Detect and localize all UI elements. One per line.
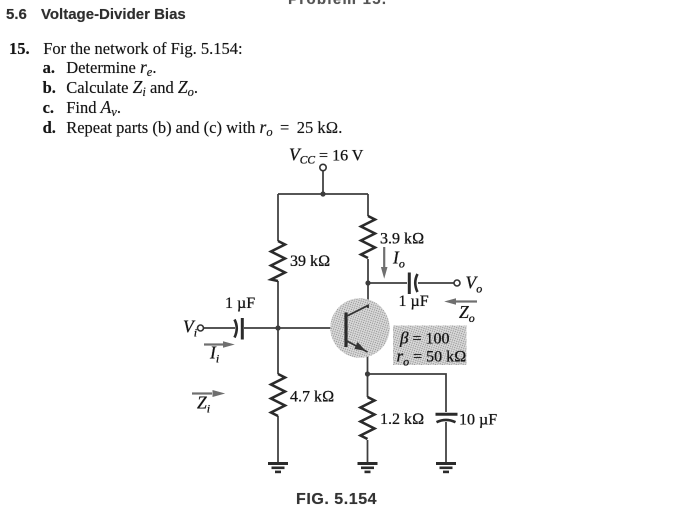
terminal Vcc bbox=[320, 164, 326, 170]
node collector junction bbox=[365, 280, 370, 285]
transistor Q1 emitter arrowhead bbox=[354, 342, 365, 351]
section heading number 5.6 bbox=[6, 7, 27, 22]
box beta/ro parameters bbox=[393, 326, 467, 366]
resistor R1 39 kOhm bbox=[271, 241, 285, 281]
capacitor C1 input 1uF plates bbox=[235, 318, 243, 340]
svg-text:1 µF: 1 µF bbox=[399, 293, 429, 310]
resistor R2 4.7 kOhm bbox=[271, 374, 285, 416]
wire collector vertical bbox=[367, 259, 369, 308]
terminal Vi bbox=[198, 325, 204, 331]
node base junction bbox=[275, 325, 280, 330]
item c bbox=[43, 98, 54, 118]
wire Vcc vertical bbox=[322, 171, 324, 194]
wire left branch middle bbox=[277, 281, 279, 374]
item a bbox=[43, 58, 55, 78]
ground left bbox=[268, 462, 288, 473]
resistor RC 3.9 kOhm bbox=[361, 216, 375, 258]
cropped page-top text fragment bbox=[288, 0, 387, 7]
item d bbox=[43, 118, 56, 138]
item b bbox=[43, 78, 56, 98]
wire 1.2k to ground bbox=[367, 440, 369, 463]
wire Vi terminal to input cap bbox=[203, 327, 235, 329]
wire output cap to Vo terminal bbox=[418, 282, 454, 284]
wire 10uF to ground bbox=[445, 422, 447, 463]
wire left branch upper bbox=[277, 194, 279, 241]
svg-text:1 µF: 1 µF bbox=[225, 295, 255, 312]
svg-text:Vi: Vi bbox=[183, 317, 197, 340]
svg-text:Vo: Vo bbox=[466, 273, 483, 296]
arrow Ii bbox=[204, 341, 235, 348]
resistor RE 1.2 kOhm bbox=[361, 397, 375, 439]
problem 15 intro line bbox=[9, 39, 30, 59]
arrow Zi bbox=[192, 390, 225, 397]
terminal Vo bbox=[454, 280, 460, 286]
svg-text:10 µF: 10 µF bbox=[459, 412, 497, 429]
wire base horizontal bbox=[244, 327, 344, 329]
capacitor C2 output 1uF plates bbox=[409, 273, 417, 295]
svg-text:Io: Io bbox=[392, 248, 405, 271]
svg-text:VCC = 16 V: VCC = 16 V bbox=[289, 145, 364, 167]
wire emitter node to bypass branch bbox=[368, 374, 447, 412]
transistor Q1 base bar bbox=[344, 313, 347, 348]
svg-text:4.7 kΩ: 4.7 kΩ bbox=[290, 389, 334, 406]
section heading title bbox=[41, 7, 186, 22]
ground right bbox=[436, 462, 456, 473]
capacitor CE 10uF plates bbox=[436, 414, 458, 422]
node top rail junction bbox=[320, 191, 325, 196]
transistor Q1 body circle bbox=[330, 298, 389, 357]
arrow Zo bbox=[444, 298, 477, 305]
transistor Q1 collector lead bbox=[346, 306, 368, 317]
wire top horizontal rail bbox=[278, 193, 368, 195]
svg-text:Zo: Zo bbox=[459, 302, 475, 325]
ground middle bbox=[358, 462, 378, 473]
figure caption FIG. 5.154 bbox=[296, 492, 377, 508]
wire collector to output cap bbox=[368, 282, 407, 284]
node emitter junction bbox=[365, 371, 370, 376]
arrow Io bbox=[381, 247, 388, 279]
svg-text:3.9 kΩ: 3.9 kΩ bbox=[380, 231, 424, 248]
svg-text:Ii: Ii bbox=[209, 343, 219, 366]
wire emitter vertical bbox=[367, 352, 369, 397]
svg-text:β = 100: β = 100 bbox=[399, 329, 450, 348]
svg-text:Zi: Zi bbox=[197, 393, 210, 416]
svg-text:39 kΩ: 39 kΩ bbox=[290, 253, 330, 270]
svg-text:1.2 kΩ: 1.2 kΩ bbox=[380, 411, 424, 428]
transistor Q1 emitter lead bbox=[346, 341, 368, 353]
wire left branch lower to ground bbox=[277, 416, 279, 463]
wire right branch upper bbox=[367, 194, 369, 216]
